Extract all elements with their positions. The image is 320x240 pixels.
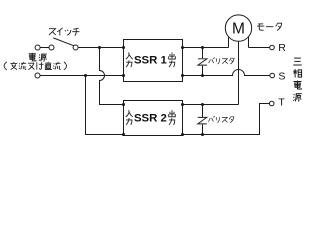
- svg-text:S: S: [278, 70, 285, 82]
- svg-text:M: M: [232, 21, 245, 38]
- svg-text:T: T: [278, 97, 285, 109]
- svg-text:SSR 2: SSR 2: [134, 112, 167, 124]
- svg-text:SSR 1: SSR 1: [134, 54, 168, 66]
- svg-text:R: R: [278, 42, 286, 54]
